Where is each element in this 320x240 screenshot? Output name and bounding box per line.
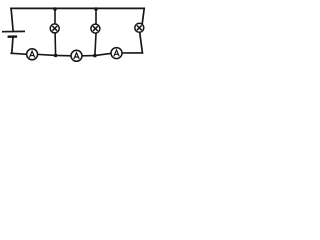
wire bottom segment 1 xyxy=(11,53,26,54)
junction node bottom 2 xyxy=(93,54,97,58)
junction node top 2 xyxy=(94,7,98,11)
ammeter A1 xyxy=(27,49,38,60)
wire branch 1 upper xyxy=(54,9,56,24)
lamp L1 xyxy=(50,24,59,33)
wire right conductor lower xyxy=(140,33,143,53)
wire left conductor upper xyxy=(11,8,13,30)
battery B1 short plate (-) xyxy=(8,35,18,38)
wire branch 1 lower xyxy=(54,33,57,55)
battery B1 long plate (+) xyxy=(2,30,25,32)
wire branch 2 lower xyxy=(95,34,96,56)
wire left conductor lower xyxy=(12,38,13,54)
lamp L3 xyxy=(135,23,144,32)
wire branch 2 upper xyxy=(95,9,97,24)
junction node bottom 1 xyxy=(54,54,58,58)
wire bottom segment 3 xyxy=(82,53,110,55)
wire bottom segment 2 xyxy=(38,54,71,55)
wire right conductor upper xyxy=(142,8,144,23)
wire bottom segment 4 xyxy=(122,52,142,54)
ammeter A3 xyxy=(111,48,122,59)
wire top conductor xyxy=(11,7,144,9)
ammeter A2 xyxy=(71,50,82,61)
lamp L2 xyxy=(91,24,100,33)
junction node top 1 xyxy=(53,7,57,11)
